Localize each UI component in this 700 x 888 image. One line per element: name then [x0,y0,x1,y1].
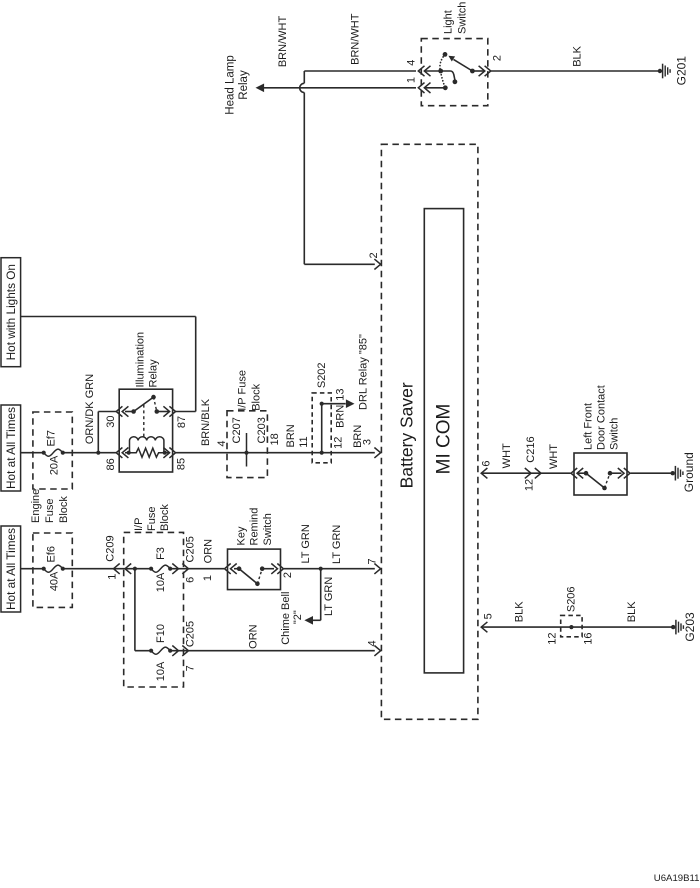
svg-text:Block: Block [159,504,171,531]
svg-text:7: 7 [184,665,196,671]
svg-text:G203: G203 [683,612,697,642]
svg-text:BRN/WHT: BRN/WHT [277,16,289,68]
svg-text:16: 16 [582,632,594,644]
svg-text:30: 30 [105,415,117,427]
svg-text:18: 18 [269,433,281,445]
svg-text:Left Front: Left Front [583,403,595,450]
svg-text:Battery Saver: Battery Saver [396,382,416,488]
svg-text:F10: F10 [155,624,167,643]
svg-text:BRN/BLK: BRN/BLK [200,398,212,446]
svg-text:ORN: ORN [203,539,215,564]
svg-text:Light: Light [442,10,454,34]
svg-text:MI COM: MI COM [434,404,455,475]
svg-text:Chime Bell: Chime Bell [280,592,292,645]
svg-text:LT GRN: LT GRN [323,577,335,616]
svg-text:2: 2 [491,55,503,61]
svg-text:Head Lamp: Head Lamp [225,55,237,114]
svg-text:85: 85 [176,458,188,470]
svg-text:20A: 20A [49,455,61,475]
svg-text:6: 6 [481,460,493,466]
svg-text:S206: S206 [566,586,578,612]
svg-text:LT GRN: LT GRN [300,524,312,563]
svg-text:12: 12 [524,479,536,491]
svg-text:10A: 10A [155,572,167,592]
svg-text:1: 1 [107,574,119,580]
svg-text:WHT: WHT [501,443,513,468]
svg-text:C209: C209 [105,535,117,561]
svg-text:BLK: BLK [572,45,584,66]
svg-text:Ef7: Ef7 [46,430,58,447]
svg-text:7: 7 [367,558,379,564]
svg-text:13: 13 [334,388,346,400]
svg-text:C207: C207 [231,417,243,443]
svg-text:Ef6: Ef6 [46,546,58,563]
svg-text:BRN: BRN [334,405,346,428]
svg-text:DRL Relay "85": DRL Relay "85" [357,334,369,410]
svg-text:12: 12 [547,632,559,644]
svg-text:BLK: BLK [514,601,526,622]
svg-text:G201: G201 [675,56,689,86]
svg-text:U6A19B11: U6A19B11 [654,873,700,883]
svg-text:BRN/WHT: BRN/WHT [350,13,362,65]
svg-text:C205: C205 [184,536,196,562]
svg-text:Relay: Relay [147,359,159,388]
svg-text:86: 86 [105,458,117,470]
svg-text:Block: Block [58,496,70,523]
svg-text:LT GRN: LT GRN [331,525,343,564]
svg-text:1: 1 [406,77,418,83]
svg-text:C216: C216 [525,436,537,462]
svg-text:4: 4 [406,60,418,66]
svg-text:BLK: BLK [626,601,638,622]
svg-text:Relay: Relay [238,70,250,100]
svg-text:F3: F3 [155,547,167,560]
svg-text:Hot at All Times: Hot at All Times [4,407,18,489]
svg-text:10A: 10A [155,661,167,681]
svg-text:87: 87 [176,416,188,428]
svg-text:WHT: WHT [548,444,560,469]
svg-text:2: 2 [282,572,294,578]
svg-text:Hot at All Times: Hot at All Times [4,528,18,610]
svg-text:Illumination: Illumination [135,332,147,388]
svg-text:Fuse: Fuse [44,499,56,523]
svg-text:I/P Fuse: I/P Fuse [236,370,248,411]
svg-text:Block: Block [250,383,262,410]
svg-text:I/P: I/P [133,518,145,531]
svg-text:Ground: Ground [682,452,696,492]
svg-text:Key: Key [235,526,247,545]
svg-text:Switch: Switch [457,2,469,34]
svg-text:40A: 40A [49,571,61,591]
svg-text:11: 11 [298,436,310,447]
svg-text:Switch: Switch [609,418,621,450]
svg-text:Engine: Engine [30,489,42,523]
svg-text:BRN: BRN [285,424,297,447]
svg-text:1: 1 [202,575,214,581]
svg-text:2: 2 [368,252,380,258]
svg-text:12: 12 [332,437,344,449]
svg-text:S202: S202 [316,362,328,388]
svg-text:Switch: Switch [262,513,274,545]
svg-text:5: 5 [482,613,494,619]
svg-text:Door Contact: Door Contact [596,385,608,450]
svg-text:Hot with Lights On: Hot with Lights On [4,264,18,360]
svg-text:ORN/DK GRN: ORN/DK GRN [84,374,96,444]
svg-text:ORN: ORN [248,624,260,649]
svg-text:C205: C205 [184,621,196,647]
svg-text:3: 3 [362,439,374,445]
svg-text:4: 4 [367,640,379,646]
svg-text:C203: C203 [256,417,268,443]
svg-text:6: 6 [184,577,196,583]
svg-text:Fuse: Fuse [146,507,158,531]
svg-text:Remind: Remind [249,508,261,546]
svg-text:"2": "2" [292,610,304,624]
